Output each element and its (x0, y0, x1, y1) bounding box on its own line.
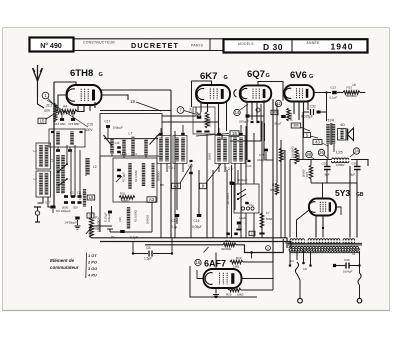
title block band (74, 39, 223, 51)
svg-text:0,1µ: 0,1µ (171, 225, 177, 229)
wire 6V6 plate top (314, 91, 331, 121)
osc coil L7b (131, 137, 134, 156)
osc box 2 (113, 158, 157, 202)
box label 15 (38, 114, 54, 124)
svg-text:43: 43 (315, 140, 320, 145)
label L7 (129, 132, 133, 136)
svg-text:50000: 50000 (121, 199, 129, 203)
label C15 (85, 123, 93, 133)
svg-text:R30 15000: R30 15000 (227, 192, 230, 205)
capacitor C26 (322, 160, 331, 184)
antenna (33, 65, 43, 97)
svg-text:C24: C24 (189, 108, 193, 113)
rail 238b (237, 170, 239, 184)
svg-text:G: G (224, 75, 228, 81)
gang coils top wire (104, 138, 158, 140)
wire coil to tube (58, 95, 84, 112)
rail 285 (284, 150, 286, 238)
capacitor C40 (65, 217, 80, 226)
label C21 (188, 160, 193, 168)
PU switch arms (237, 189, 255, 207)
label L25 (336, 150, 343, 155)
node 21 (266, 246, 271, 251)
rail 231 (230, 165, 234, 238)
6Q7 trimmer (256, 108, 260, 112)
capacitor C28 (350, 160, 361, 184)
osc2 coil c (152, 163, 155, 188)
6AF7 grid resistor R19 (230, 256, 243, 269)
svg-text:P23: P23 (347, 86, 353, 90)
capacitor C25 (257, 149, 268, 162)
svg-text:MODÈLE: MODÈLE (238, 41, 255, 46)
pointer node1 (48, 99, 56, 108)
svg-text:C3: C3 (61, 191, 65, 195)
tube 6K7G label (200, 71, 228, 82)
svg-text:T 2 2: T 2 2 (168, 166, 176, 170)
svg-text:50000Ω: 50000Ω (157, 172, 161, 181)
svg-text:C2: C2 (70, 191, 74, 195)
svg-text:L25: L25 (336, 150, 343, 155)
6K7G pin wires (201, 101, 227, 140)
coupling coil (127, 207, 130, 229)
label C23 (247, 160, 252, 168)
svg-text:R16: R16 (225, 239, 231, 243)
svg-text:15: 15 (196, 260, 201, 265)
box label 43 (313, 140, 328, 147)
left coil box lower (36, 171, 51, 197)
svg-text:8µF: 8µF (350, 173, 355, 177)
svg-text:R20: R20 (226, 293, 232, 297)
osc coil L7a (122, 139, 125, 156)
wire left top corner (54, 82, 76, 86)
svg-text:300: 300 (73, 206, 78, 210)
capacitor C8 (132, 246, 173, 261)
capacitor C15b (68, 113, 79, 126)
label PARIS (191, 44, 204, 48)
svg-text:C10: C10 (118, 217, 122, 222)
label 015uF b (107, 213, 111, 222)
label 47k (44, 109, 51, 113)
svg-text:R27: R27 (305, 171, 309, 177)
T24 core (331, 123, 332, 145)
gang arrow 2 (150, 134, 160, 145)
pointer C15 (47, 100, 88, 127)
capacitor cluster row2 (64, 201, 82, 204)
svg-text:F7: F7 (266, 211, 270, 215)
osc2 small parts (116, 169, 122, 182)
box label 30 (291, 123, 310, 131)
box label 5c (304, 133, 319, 139)
rail 262 (261, 121, 263, 238)
svg-text:1MΩ: 1MΩ (237, 293, 244, 297)
svg-text:4 PU: 4 PU (87, 273, 97, 278)
nested line 3 (100, 111, 218, 123)
6K7 grid cap (197, 113, 202, 119)
svg-text:C32: C32 (310, 105, 316, 109)
wire antenna down (38, 97, 45, 108)
svg-text:T24: T24 (327, 118, 335, 123)
svg-text:26: 26 (319, 150, 324, 155)
svg-text:1940: 1940 (331, 41, 354, 51)
left coil box upper (36, 143, 51, 169)
label 32.2 (46, 104, 52, 108)
tube 6AF7 (204, 269, 242, 288)
svg-text:10µF: 10µF (239, 216, 246, 220)
svg-text:2430µµF: 2430µµF (65, 221, 77, 225)
rail 281 (280, 140, 282, 238)
rail 277 (276, 103, 278, 183)
wire left cluster bottom (38, 197, 55, 207)
svg-text:R19: R19 (236, 256, 242, 260)
capacitor C35 (333, 258, 361, 274)
osc2 coil a (128, 163, 131, 189)
choke L25 (332, 158, 349, 167)
switch arm S2 (58, 178, 68, 186)
PU contacts (241, 207, 254, 210)
svg-text:C13: C13 (331, 86, 337, 90)
svg-text:100µµF: 100µµF (107, 213, 111, 222)
tap figures (290, 253, 356, 271)
blobs below T1 (56, 147, 72, 152)
capacitor C13 top (330, 86, 344, 100)
padder caps (115, 141, 121, 153)
IF top wires (161, 125, 241, 133)
rail 207 (206, 134, 208, 238)
svg-text:6Ω: 6Ω (341, 123, 346, 127)
svg-text:6TH8: 6TH8 (70, 68, 93, 79)
label R5 (157, 172, 165, 187)
pointer 16 (196, 134, 229, 137)
6K7G top cap wire (192, 81, 213, 107)
svg-text:C15: C15 (87, 123, 93, 127)
svg-text:130: 130 (303, 268, 308, 271)
potentiometer P1 (90, 206, 101, 238)
capacitor C12 wire (107, 128, 109, 139)
svg-text:C35: C35 (344, 258, 350, 262)
svg-text:100µµF: 100µµF (238, 178, 248, 182)
speaker cone (348, 128, 354, 141)
pointer line 7 (184, 111, 195, 115)
bus diagonal (204, 247, 209, 253)
6AF7 resistor R20 (226, 288, 273, 296)
6K7 grounds (196, 131, 209, 133)
IF can T25 box a (215, 136, 229, 164)
svg-text:1 OT: 1 OT (88, 253, 97, 258)
speaker coil (338, 129, 347, 141)
label MODELE (238, 41, 255, 46)
IF can T22 box a (157, 136, 171, 164)
svg-text:DUCRETET: DUCRETET (131, 41, 179, 50)
tube 6Q7G label (247, 69, 270, 80)
osc2 rot labels (122, 170, 139, 182)
6TH8G plate wire (102, 95, 129, 100)
svg-text:R2 0,5MΩ: R2 0,5MΩ (134, 170, 138, 182)
rail 246 (245, 126, 247, 238)
rail 163b (0, 0, 1, 1)
bus line 2 (100, 242, 291, 249)
6K7 label C24 (189, 108, 193, 113)
svg-text:50000Ω: 50000Ω (208, 118, 212, 127)
capacitor 10uF (236, 216, 245, 231)
svg-text:4.3: 4.3 (133, 152, 137, 156)
capacitor C19 (192, 210, 202, 229)
label HP (353, 83, 357, 87)
PU switch box (234, 184, 259, 213)
svg-text:380: 380 (293, 124, 299, 128)
svg-text:6V6: 6V6 (290, 70, 307, 81)
title box N 490 (30, 38, 74, 52)
resistor R6 (295, 148, 301, 164)
mains right lead (357, 251, 362, 303)
node 28 (306, 151, 315, 159)
svg-text:0,05µF: 0,05µF (192, 225, 202, 229)
svg-text:19: 19 (130, 99, 136, 104)
transformer primary row (290, 239, 355, 244)
wire y232 (107, 229, 152, 232)
box label 16 (230, 131, 239, 137)
shield top line (102, 90, 172, 238)
svg-text:0,04µF: 0,04µF (343, 270, 353, 274)
6TH8G pin wires (78, 102, 95, 112)
bus line 3 (145, 239, 283, 253)
label T25 (225, 167, 233, 171)
6Q7 detector bar (246, 114, 265, 123)
input coil A4 (56, 105, 77, 114)
ground C40 (75, 226, 81, 229)
svg-text:C21: C21 (188, 164, 193, 168)
tube 5Y3GB label (335, 188, 364, 198)
transformer T24 primary (326, 124, 329, 144)
5Y3 plate wires (323, 183, 342, 215)
rail 254 (253, 133, 255, 238)
svg-text:G: G (309, 74, 313, 80)
IF can T1 coils (56, 132, 74, 146)
rail 213 (212, 170, 214, 238)
svg-text:L5: L5 (89, 195, 94, 200)
transformer core (288, 243, 362, 245)
box label 5a (87, 213, 94, 218)
label DUCRETET (131, 41, 179, 50)
svg-text:50000: 50000 (93, 228, 101, 231)
svg-text:C23: C23 (247, 164, 252, 168)
svg-text:50µF: 50µF (275, 122, 282, 126)
6Q7 det label (239, 120, 249, 124)
svg-text:1,5µF: 1,5µF (144, 257, 152, 261)
label R7 5M (270, 183, 279, 195)
capacitor C34 (171, 214, 179, 229)
svg-text:1MΩ: 1MΩ (233, 265, 240, 269)
label 19 pointer (130, 99, 161, 111)
svg-text:C17: C17 (105, 120, 111, 124)
rail 191 (189, 165, 193, 238)
bus end blobs (226, 231, 255, 236)
svg-text:6K7: 6K7 (200, 71, 217, 82)
node 14 (234, 104, 248, 116)
node 7 (177, 107, 184, 114)
svg-text:R8 2MΩ: R8 2MΩ (282, 150, 286, 160)
tube 6V6G (284, 85, 314, 101)
svg-text:50000: 50000 (208, 152, 212, 160)
6V6 cathode cap (275, 115, 286, 126)
svg-text:L3: L3 (34, 177, 38, 181)
label 1940 (331, 41, 354, 51)
label L2b (93, 165, 97, 169)
svg-text:N° 490: N° 490 (40, 42, 62, 50)
coupling rot labels (118, 210, 150, 224)
svg-text:50000Ω: 50000Ω (346, 94, 357, 98)
handwritten note (50, 258, 79, 270)
6AF7 grid wire (215, 253, 217, 270)
svg-text:1400Ω: 1400Ω (336, 163, 346, 167)
svg-text:C17: C17 (45, 201, 51, 205)
svg-text:PARIS: PARIS (191, 44, 204, 48)
svg-text:15: 15 (40, 119, 45, 124)
svg-text:L1: L1 (50, 158, 54, 162)
label T18 (285, 241, 291, 245)
6V6 cathode resistor (287, 108, 293, 121)
mains switch (295, 262, 302, 303)
label T24 (327, 118, 335, 123)
svg-text:L7: L7 (129, 132, 133, 136)
node 24 (350, 148, 360, 157)
label C30 (271, 110, 278, 115)
svg-text:43,7µµF: 43,7µµF (122, 172, 126, 182)
svg-text:32.2: 32.2 (46, 104, 52, 108)
ground terminal (34, 207, 41, 222)
pot corner box (90, 226, 112, 238)
svg-text:50000: 50000 (297, 154, 301, 162)
label 150000 (291, 146, 295, 158)
gang section 2 coil (144, 139, 147, 156)
6AF7 wires right (242, 262, 274, 290)
rail 290 (289, 160, 291, 238)
svg-text:CONSTRUCTEUR: CONSTRUCTEUR (83, 41, 115, 45)
svg-text:20000: 20000 (302, 169, 306, 177)
svg-text:0,15µF: 0,15µF (104, 212, 108, 222)
label ANNEE (306, 40, 320, 45)
antenna coupling coil (54, 103, 57, 122)
transformer taps (289, 251, 312, 267)
resistor R31 (119, 192, 135, 204)
title box modele/annee (224, 39, 368, 52)
IF can T22 box b (173, 136, 187, 164)
left coil labels (34, 149, 55, 181)
svg-text:T18: T18 (285, 241, 291, 245)
svg-text:14: 14 (235, 110, 240, 115)
left coil L2b (86, 158, 89, 175)
6AF7 bracket (190, 266, 257, 297)
label 6ohm (341, 123, 346, 127)
capacitor cluster row1 (64, 195, 82, 198)
6AF7 top wire (0, 0, 1, 1)
svg-text:A3: A3 (173, 184, 179, 189)
resistor P23 (343, 86, 365, 99)
capacitor C14 (54, 113, 65, 126)
svg-text:A3: A3 (149, 197, 155, 202)
capacitor C17 (45, 201, 56, 214)
svg-text:24: 24 (354, 149, 359, 154)
coil L5 (78, 189, 86, 207)
label T22 (168, 166, 176, 170)
T24 bottom wires (328, 144, 334, 160)
svg-text:R31: R31 (120, 192, 126, 196)
5Y3 cathode wires (297, 210, 324, 238)
wire left rail (53, 82, 55, 207)
6AF7 cathode ground (213, 288, 219, 298)
svg-text:6Q7: 6Q7 (247, 69, 265, 80)
svg-text:250µµF: 250µµF (239, 120, 249, 124)
cap blob a (108, 211, 112, 214)
svg-text:5Y3: 5Y3 (335, 188, 350, 198)
node 15 and 6AF7 label (195, 259, 226, 269)
svg-text:(5): (5) (111, 235, 115, 239)
svg-text:5000: 5000 (62, 206, 69, 210)
coil mid left (86, 158, 89, 175)
svg-text:6AF7: 6AF7 (204, 259, 226, 269)
5Y3 HT wires (350, 166, 357, 238)
node 1 terminal (42, 92, 49, 99)
svg-text:C26: C26 (322, 162, 328, 166)
svg-text:5MΩ: 5MΩ (266, 217, 273, 221)
svg-text:C8: C8 (146, 246, 150, 250)
transformer secondary row (289, 246, 360, 252)
boxed L5 (87, 195, 95, 200)
tube 6K7G (196, 85, 230, 103)
IF bottom wires (161, 163, 241, 238)
svg-text:(400Ω): (400Ω) (289, 113, 293, 121)
svg-text:100µµF: 100µµF (113, 126, 123, 130)
svg-text:600V: 600V (85, 128, 93, 132)
6Q7 6V6 mid rails (230, 104, 265, 141)
gang section 1 coil (110, 139, 113, 154)
note bracket (85, 253, 88, 279)
6Q7 pin wires (247, 100, 264, 160)
switch arm S1 (57, 163, 68, 173)
svg-text:C14 1BD: C14 1BD (54, 122, 65, 126)
gang inner labels (120, 152, 137, 156)
svg-text:0,1µ: 0,1µ (249, 204, 254, 207)
6AF7 left stub (197, 270, 204, 279)
rail x100 (99, 156, 101, 232)
gang box (100, 114, 162, 157)
capacitor C32 (301, 105, 327, 119)
IF can T1 box (49, 129, 85, 147)
PU top cap (231, 178, 248, 185)
label 015uF (104, 212, 108, 222)
svg-text:40000Ω: 40000Ω (221, 247, 232, 251)
tube 6V6G label (290, 70, 313, 81)
node 26 (318, 149, 328, 158)
label D 30 (263, 42, 283, 52)
svg-text:14 43: 14 43 (120, 152, 127, 156)
6K7 grid resistor (205, 112, 211, 128)
note list (87, 253, 97, 278)
wire x152 (151, 202, 153, 232)
rail 199 (198, 170, 200, 213)
left bare coil L1 (56, 155, 65, 193)
osc2 coil b (142, 163, 145, 186)
box label A3 (172, 164, 193, 189)
svg-text:3 GO: 3 GO (88, 266, 97, 271)
resistor R16 (221, 239, 236, 251)
svg-text:G: G (99, 72, 103, 78)
tube 6Q7G (240, 85, 271, 101)
gang bottom wires (112, 154, 146, 158)
tube 6TH8G label (70, 68, 103, 79)
svg-text:HP: HP (353, 83, 357, 87)
left cluster verticals (67, 145, 86, 197)
IF trimmers (159, 133, 243, 136)
